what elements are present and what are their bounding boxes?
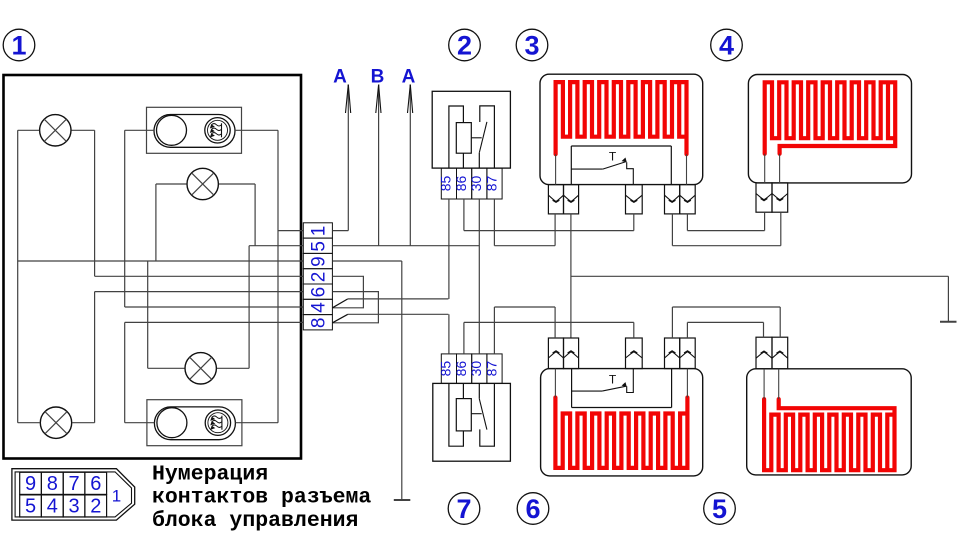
svg-text:4: 4 [308, 302, 329, 313]
svg-text:1: 1 [11, 31, 26, 61]
svg-text:2: 2 [457, 31, 472, 61]
svg-text:9: 9 [25, 473, 36, 495]
svg-text:T: T [609, 150, 617, 164]
svg-text:30: 30 [468, 176, 484, 192]
svg-text:1: 1 [308, 226, 329, 237]
svg-text:85: 85 [438, 176, 454, 192]
svg-text:A: A [402, 67, 416, 88]
svg-text:2: 2 [90, 496, 101, 518]
svg-text:6: 6 [308, 287, 329, 298]
svg-text:5: 5 [712, 494, 727, 524]
svg-text:3: 3 [524, 31, 539, 61]
svg-text:1: 1 [112, 487, 121, 506]
svg-text:6: 6 [525, 494, 540, 524]
svg-text:блока управления: блока управления [152, 509, 358, 533]
svg-text:4: 4 [719, 31, 734, 61]
svg-text:8: 8 [47, 473, 58, 495]
svg-text:30: 30 [468, 361, 484, 377]
svg-text:9: 9 [308, 256, 329, 267]
svg-text:87: 87 [483, 176, 499, 192]
svg-text:7: 7 [456, 494, 471, 524]
svg-text:B: B [371, 67, 385, 88]
svg-text:Нумерация: Нумерация [152, 463, 268, 487]
svg-text:T: T [609, 373, 617, 387]
svg-text:A: A [333, 67, 347, 88]
svg-text:86: 86 [453, 361, 469, 377]
svg-text:6: 6 [90, 473, 101, 495]
svg-text:85: 85 [438, 361, 454, 377]
svg-text:2: 2 [308, 272, 329, 283]
svg-text:3: 3 [69, 496, 80, 518]
svg-text:5: 5 [25, 496, 36, 518]
svg-text:4: 4 [47, 496, 58, 518]
svg-text:87: 87 [483, 361, 499, 377]
svg-text:8: 8 [308, 318, 329, 329]
svg-text:5: 5 [308, 241, 329, 252]
svg-text:контактов разъема: контактов разъема [152, 486, 371, 510]
svg-text:86: 86 [453, 176, 469, 192]
svg-text:7: 7 [69, 473, 80, 495]
